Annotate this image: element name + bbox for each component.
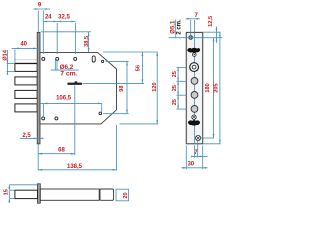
svg-text:138,5: 138,5: [67, 164, 83, 170]
svg-text:12,5: 12,5: [208, 16, 214, 27]
svg-text:7 cm.: 7 cm.: [60, 71, 77, 78]
svg-text:38,5: 38,5: [84, 36, 90, 47]
svg-text:106,5: 106,5: [56, 96, 72, 102]
svg-text:2 cm.: 2 cm.: [177, 19, 183, 35]
svg-text:25: 25: [172, 85, 178, 91]
svg-text:Ø14: Ø14: [2, 49, 8, 60]
svg-text:30: 30: [187, 161, 194, 167]
svg-text:98: 98: [119, 85, 125, 91]
svg-text:56: 56: [136, 65, 142, 71]
svg-text:25: 25: [172, 71, 178, 77]
svg-text:205: 205: [214, 83, 220, 92]
svg-text:2,5: 2,5: [22, 133, 31, 139]
svg-text:20: 20: [123, 192, 129, 198]
svg-text:120: 120: [152, 82, 158, 91]
svg-text:32,5: 32,5: [58, 15, 70, 21]
svg-text:68: 68: [58, 148, 65, 154]
svg-text:40: 40: [20, 42, 27, 48]
svg-text:15: 15: [3, 189, 9, 195]
svg-text:24: 24: [45, 15, 52, 21]
svg-text:180: 180: [205, 83, 211, 92]
svg-text:25: 25: [172, 99, 178, 105]
svg-text:Ø5,1: Ø5,1: [171, 20, 177, 34]
